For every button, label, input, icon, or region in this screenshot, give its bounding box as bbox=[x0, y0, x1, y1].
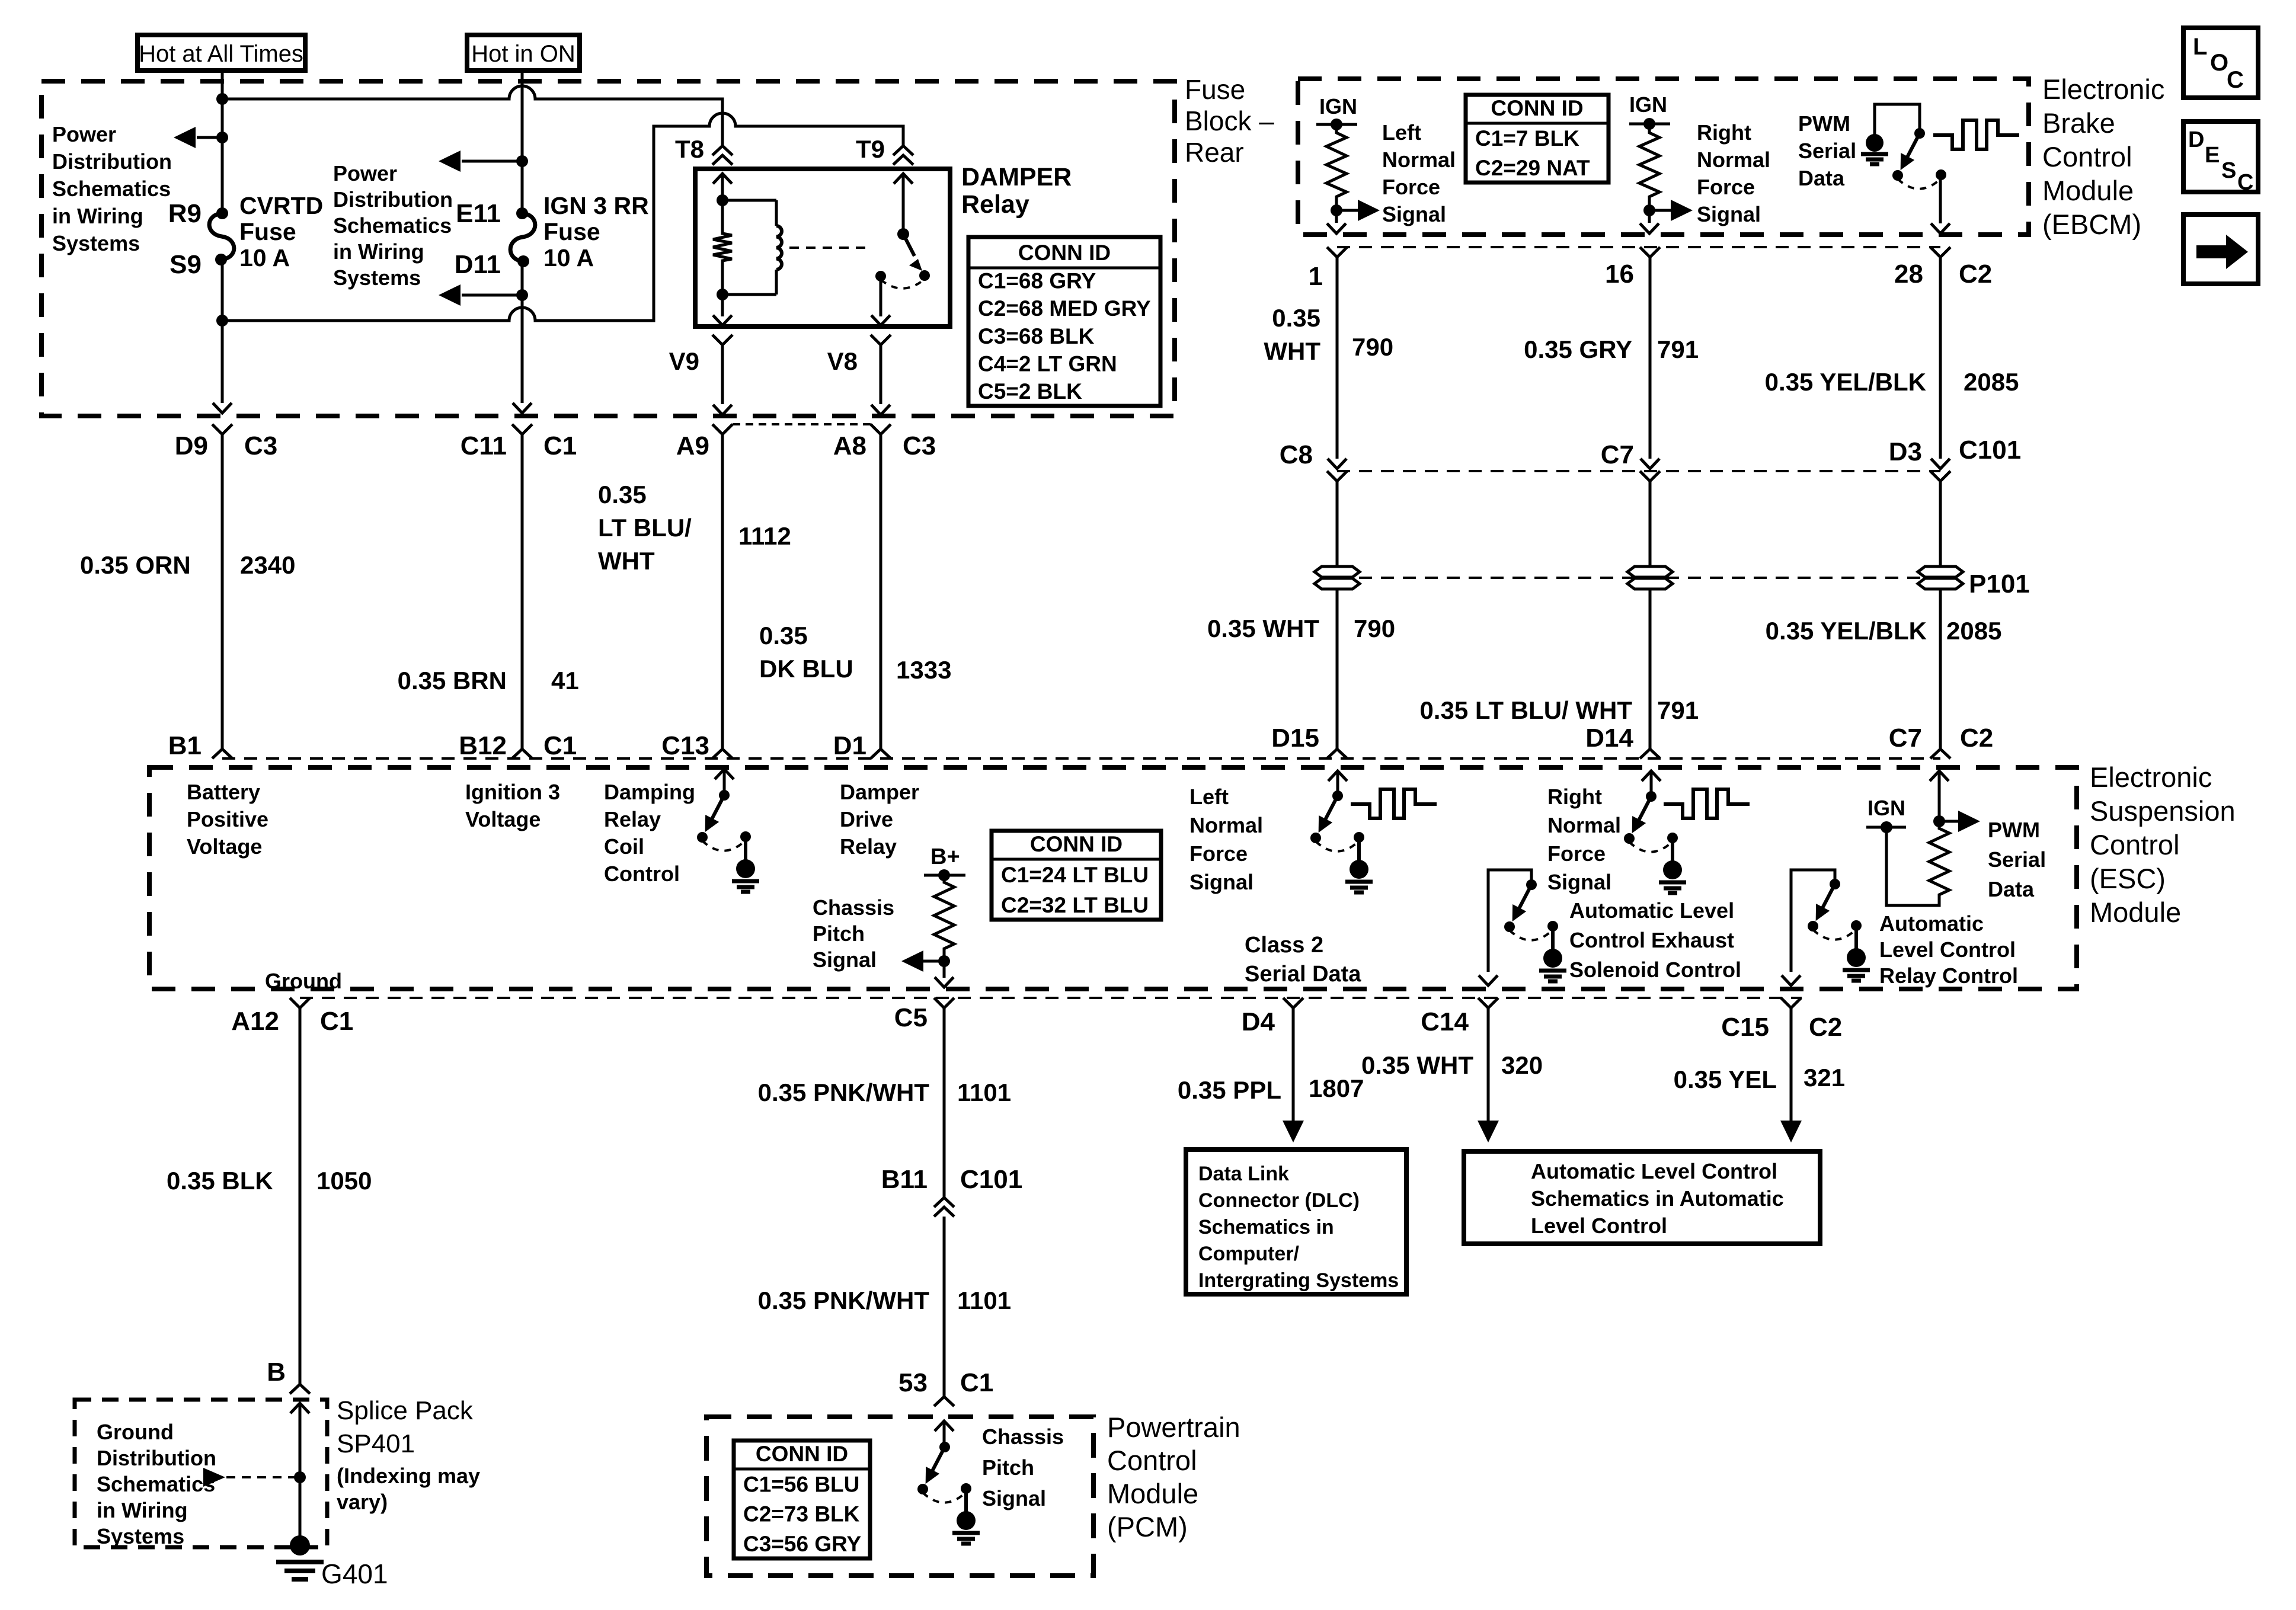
svg-text:C2=73 BLK: C2=73 BLK bbox=[743, 1502, 860, 1526]
svg-text:(ESC): (ESC) bbox=[2090, 863, 2166, 894]
svg-text:Powertrain: Powertrain bbox=[1107, 1411, 1240, 1443]
svg-text:D15: D15 bbox=[1271, 724, 1319, 753]
reference box: Data Link Connector (DLC) Schematics bbox=[1186, 1150, 1406, 1294]
svg-text:Hot at All Times: Hot at All Times bbox=[139, 41, 303, 67]
dashed arc: relay contact throw bbox=[881, 279, 925, 289]
svg-text:0.35 YEL/BLK: 0.35 YEL/BLK bbox=[1765, 368, 1926, 396]
svg-text:CONN ID: CONN ID bbox=[1491, 96, 1583, 120]
arrow: pin 28 exits EBCM bbox=[1931, 223, 1950, 233]
connector: B11/C101 in-line (double chevron) bbox=[934, 1198, 954, 1207]
svg-text:D1: D1 bbox=[833, 731, 866, 760]
junction: left normal force output node bbox=[1331, 204, 1342, 216]
switch: left normal force signal driver bbox=[1336, 771, 1339, 796]
arrow: C14 exits ESC (down) bbox=[1479, 975, 1498, 985]
svg-text:Left: Left bbox=[1382, 120, 1421, 145]
wire: A9 to C13 bbox=[721, 434, 724, 749]
svg-text:D14: D14 bbox=[1585, 724, 1633, 753]
svg-text:Signal: Signal bbox=[982, 1486, 1046, 1510]
svg-text:Drive: Drive bbox=[840, 807, 893, 831]
junction: fuse output / T9 feed branch bbox=[216, 315, 228, 327]
svg-text:Schematics: Schematics bbox=[97, 1472, 215, 1496]
svg-text:2340: 2340 bbox=[240, 551, 295, 579]
svg-text:WHT: WHT bbox=[598, 547, 655, 575]
wire: divider to output node bbox=[943, 952, 946, 978]
connector: D4 (female) bbox=[1283, 998, 1303, 1008]
junction: coil top node bbox=[717, 194, 728, 206]
svg-text:Suspension: Suspension bbox=[2090, 795, 2236, 827]
svg-text:C1=56 BLU: C1=56 BLU bbox=[743, 1472, 859, 1496]
module box: Electronic Brake Control Module (EBCM), dashed bbox=[1298, 79, 2029, 235]
svg-text:0.35 PNK/WHT: 0.35 PNK/WHT bbox=[758, 1286, 930, 1314]
junction: coil bottom node bbox=[717, 289, 728, 300]
svg-text:321: 321 bbox=[1803, 1064, 1845, 1092]
wire: PWM output contact to pin 28 bbox=[1939, 175, 1942, 223]
wire: class 2 serial data D4 to DLC (0.35 PPL 1807) bbox=[1292, 1008, 1295, 1121]
svg-text:vary): vary) bbox=[337, 1490, 388, 1514]
svg-text:C11: C11 bbox=[461, 431, 507, 460]
svg-text:Positive: Positive bbox=[187, 807, 268, 831]
svg-text:41: 41 bbox=[551, 667, 579, 694]
resistor: relay damping resistor bbox=[713, 230, 732, 264]
wire: V9 damping relay coil control to fuse block border bbox=[712, 335, 733, 345]
wire: branch at y167 to damper relay T8 (hops over IGN wire) bbox=[222, 86, 722, 146]
svg-text:Control: Control bbox=[2090, 829, 2180, 860]
svg-text:Schematics: Schematics bbox=[52, 177, 171, 201]
wire: below resistor to relay bottom bbox=[721, 264, 724, 316]
svg-text:Automatic: Automatic bbox=[1879, 911, 1984, 936]
svg-text:C1=24 LT BLU: C1=24 LT BLU bbox=[1001, 863, 1149, 887]
conn table: PCM CONN ID bbox=[734, 1441, 870, 1558]
svg-text:G401: G401 bbox=[321, 1558, 388, 1589]
svg-text:0.35: 0.35 bbox=[598, 481, 647, 508]
svg-text:Pitch: Pitch bbox=[813, 921, 865, 946]
arrow: left normal force signal (right) bbox=[1336, 209, 1358, 212]
module box: Fuse Block - Rear (dashed) bbox=[41, 81, 1175, 416]
svg-text:28: 28 bbox=[1894, 260, 1923, 289]
dashed link: coil actuates switch bbox=[789, 247, 871, 249]
svg-text:P101: P101 bbox=[1969, 569, 2030, 598]
svg-text:Control: Control bbox=[2042, 141, 2132, 172]
wire: A8 to D1 bbox=[880, 434, 882, 749]
svg-text:Level Control: Level Control bbox=[1879, 937, 2016, 962]
svg-text:CVRTD: CVRTD bbox=[239, 192, 323, 219]
connector: C5 (female) bbox=[934, 998, 954, 1008]
wire: ground to PWM switch pivot bbox=[1875, 104, 1920, 135]
wire: D9 to B1 (0.35 ORN 2340) bbox=[221, 434, 224, 749]
svg-text:SP401: SP401 bbox=[337, 1429, 415, 1458]
svg-text:D: D bbox=[2188, 127, 2204, 152]
svg-text:1112: 1112 bbox=[738, 522, 791, 550]
svg-text:D3: D3 bbox=[1889, 437, 1922, 466]
connector: ESC top entry (female) bbox=[712, 749, 733, 758]
svg-text:WHT: WHT bbox=[1264, 337, 1320, 365]
junction: battery feed / T8 branch bbox=[216, 93, 228, 105]
svg-text:Systems: Systems bbox=[52, 231, 140, 255]
junction: chassis pitch output node bbox=[938, 955, 950, 967]
plane: ESC bottom connector plane bbox=[300, 997, 1802, 999]
svg-text:2085: 2085 bbox=[1946, 617, 2001, 645]
icon box: forward arrow bbox=[2183, 215, 2258, 284]
svg-text:DK BLU: DK BLU bbox=[759, 655, 853, 683]
svg-text:320: 320 bbox=[1501, 1051, 1543, 1079]
arrow: chassis pitch signal (left) bbox=[923, 960, 944, 963]
svg-text:0.35 YEL/BLK: 0.35 YEL/BLK bbox=[1766, 617, 1927, 645]
plane: C101 in-line connector bbox=[1337, 470, 1940, 472]
wire: coil bottom connection bbox=[722, 293, 776, 296]
svg-text:Normal: Normal bbox=[1189, 813, 1263, 837]
svg-text:Automatic Level Control: Automatic Level Control bbox=[1531, 1159, 1777, 1183]
svg-text:Schematics: Schematics bbox=[333, 213, 452, 238]
conn table: ESC CONN ID bbox=[992, 831, 1161, 920]
junction: IGN fuse output / arrow branch D11 bbox=[516, 289, 528, 301]
wire: battery feed from Hot at All Times down to CVRTD fuse bbox=[221, 71, 224, 213]
wire: 791 C101 to P101 bbox=[1649, 481, 1652, 565]
svg-text:Force: Force bbox=[1547, 841, 1606, 866]
label box: Hot at All Times bbox=[137, 35, 305, 71]
arrow: PWM serial data (right) bbox=[1939, 820, 1959, 823]
svg-text:LT BLU/: LT BLU/ bbox=[598, 514, 692, 542]
arrow: relay output exits relay (down) bbox=[871, 315, 890, 325]
wire: 790 WHT C101 to P101 bbox=[1336, 481, 1339, 565]
fuse: IGN 3 RR Fuse 10 A bbox=[510, 213, 535, 261]
svg-text:V8: V8 bbox=[827, 347, 858, 375]
svg-text:C4=2 LT GRN: C4=2 LT GRN bbox=[978, 351, 1117, 376]
svg-text:16: 16 bbox=[1605, 260, 1634, 289]
plane: EBCM C2 connector plane bbox=[1337, 246, 1940, 248]
arrow: into ALC reference box (left) bbox=[1478, 1121, 1499, 1142]
module box: Powertrain Control Module (PCM), dashed bbox=[706, 1417, 1093, 1576]
svg-text:Right: Right bbox=[1697, 120, 1751, 145]
connector: EBCM pin 1 (female) bbox=[1327, 247, 1347, 257]
svg-text:Relay: Relay bbox=[840, 834, 897, 859]
svg-text:2085: 2085 bbox=[1964, 368, 2019, 396]
plane: fuse block lower connector plane (A9-A8) bbox=[733, 423, 871, 425]
wire: 2085 C101 to P101 bbox=[1939, 481, 1942, 565]
connector: D3 at C101 bbox=[1931, 459, 1950, 469]
arrow: ground distribution link (right) bbox=[203, 1468, 225, 1487]
connector: PCM pin 53 entry bbox=[934, 1397, 954, 1406]
svg-text:C3: C3 bbox=[244, 431, 277, 460]
svg-text:Electronic: Electronic bbox=[2090, 761, 2212, 793]
wire: 2085 YEL/BLK pin28 to C101 bbox=[1939, 257, 1942, 459]
svg-text:C7: C7 bbox=[1601, 440, 1634, 469]
connector: A9 (female) bbox=[712, 424, 733, 434]
wire: Hot in ON feed down to IGN 3 RR fuse bbox=[521, 71, 524, 213]
wire: PWM serial data to divider node bbox=[1938, 771, 1941, 825]
svg-text:Block –: Block – bbox=[1185, 105, 1274, 136]
svg-text:(PCM): (PCM) bbox=[1107, 1511, 1188, 1542]
relay K1: DAMPER Relay box bbox=[695, 169, 950, 327]
svg-text:790: 790 bbox=[1354, 614, 1395, 642]
svg-text:C1: C1 bbox=[960, 1368, 993, 1397]
arrow: into ALC reference box (right) bbox=[1780, 1121, 1802, 1142]
svg-text:C3=56 GRY: C3=56 GRY bbox=[743, 1532, 861, 1556]
svg-text:Chassis: Chassis bbox=[982, 1425, 1064, 1449]
svg-text:IGN: IGN bbox=[1629, 92, 1667, 117]
svg-text:in Wiring: in Wiring bbox=[52, 204, 143, 228]
connector: splice pack B entry bbox=[290, 1384, 310, 1394]
svg-text:Relay: Relay bbox=[604, 807, 661, 831]
svg-text:S: S bbox=[2221, 158, 2236, 183]
svg-text:B11: B11 bbox=[881, 1165, 928, 1194]
svg-text:C1: C1 bbox=[543, 431, 577, 460]
svg-text:E11: E11 bbox=[456, 199, 501, 228]
arrow: pin 53 enters PCM (up) bbox=[935, 1421, 954, 1431]
svg-text:C8: C8 bbox=[1280, 440, 1313, 469]
resistor: ESC PWM serial data bbox=[1929, 825, 1949, 898]
svg-text:C1: C1 bbox=[320, 1007, 353, 1036]
svg-text:Intergrating Systems: Intergrating Systems bbox=[1198, 1269, 1399, 1292]
svg-text:Ground: Ground bbox=[97, 1420, 174, 1444]
svg-text:S9: S9 bbox=[170, 250, 202, 279]
ground: EBCM PWM serial data reference bbox=[1866, 134, 1884, 152]
svg-text:Module: Module bbox=[1107, 1478, 1198, 1509]
arrow: to Power Distribution Schematics (mid, upper) bbox=[462, 160, 522, 163]
arrow: into DLC reference box bbox=[1283, 1121, 1304, 1142]
svg-text:C101: C101 bbox=[1959, 436, 2021, 465]
wire: IGN fuse output down to fuse-block border bbox=[521, 260, 524, 403]
svg-text:V9: V9 bbox=[669, 347, 699, 375]
wire: T9 feed from fuse output junction (hops over IGN wire and T8 wire) bbox=[222, 113, 903, 321]
svg-text:Normal: Normal bbox=[1547, 813, 1621, 837]
svg-text:Pitch: Pitch bbox=[982, 1455, 1034, 1480]
conn table: damper relay CONN ID bbox=[968, 237, 1160, 406]
connector: A12/C1 (female) bbox=[290, 998, 310, 1008]
connector: T8 into damper relay (double female) bbox=[712, 146, 733, 155]
svg-text:B1: B1 bbox=[168, 731, 202, 760]
svg-text:Brake: Brake bbox=[2042, 107, 2115, 139]
arrow: C5 exits ESC (down) bbox=[935, 977, 954, 987]
svg-text:0.35 PNK/WHT: 0.35 PNK/WHT bbox=[758, 1078, 930, 1106]
conn table: EBCM CONN ID bbox=[1466, 95, 1609, 183]
svg-text:CONN ID: CONN ID bbox=[1030, 832, 1123, 856]
svg-text:E: E bbox=[2205, 143, 2220, 168]
svg-text:Serial: Serial bbox=[1798, 139, 1856, 163]
arrow: relay common pin entering (up) bbox=[894, 174, 913, 184]
svg-text:791: 791 bbox=[1657, 335, 1699, 363]
svg-text:1101: 1101 bbox=[957, 1286, 1011, 1314]
svg-text:Ignition 3: Ignition 3 bbox=[465, 780, 560, 804]
svg-text:Schematics in Automatic: Schematics in Automatic bbox=[1531, 1186, 1784, 1211]
svg-text:C: C bbox=[2237, 170, 2253, 195]
junction: ESC IGN tick bbox=[1881, 821, 1892, 833]
wire: relay common to switch pivot bbox=[902, 174, 905, 234]
arrow: V8 exits fuse block bbox=[871, 405, 890, 415]
arrow: relay coil pin entering (up) bbox=[713, 174, 732, 184]
svg-text:C2: C2 bbox=[1959, 260, 1992, 289]
dashed link: to splice node bbox=[226, 1476, 300, 1478]
svg-text:T9: T9 bbox=[856, 135, 885, 163]
switch: relay contact arm bbox=[897, 228, 909, 240]
svg-text:Hot in ON: Hot in ON bbox=[471, 41, 575, 67]
svg-text:Rear: Rear bbox=[1185, 137, 1244, 168]
junction: battery feed / power-distribution arrow bbox=[216, 132, 228, 143]
reference box: Automatic Level Control Schematics bbox=[1464, 1151, 1820, 1244]
resistor: right normal force pull-up bbox=[1648, 124, 1651, 129]
grommet: P101 on wire 2085 bbox=[1918, 566, 1963, 577]
svg-text:Right: Right bbox=[1547, 785, 1602, 809]
wire: ALC relay control C15 down (0.35 YEL 321) bbox=[1790, 1008, 1793, 1121]
svg-text:CONN ID: CONN ID bbox=[1018, 241, 1111, 265]
svg-text:in Wiring: in Wiring bbox=[97, 1498, 188, 1522]
switch: PWM serial data driver (EBCM) bbox=[1914, 128, 1925, 139]
svg-text:L: L bbox=[2193, 34, 2207, 60]
svg-text:Force: Force bbox=[1189, 841, 1248, 866]
icon box: DESC bbox=[2183, 121, 2258, 192]
svg-text:0.35 WHT: 0.35 WHT bbox=[1207, 614, 1319, 642]
svg-text:Chassis: Chassis bbox=[813, 895, 894, 920]
svg-text:PWM: PWM bbox=[1798, 111, 1850, 136]
wire: 790 WHT pin1 to C101 bbox=[1336, 257, 1339, 459]
svg-text:C7: C7 bbox=[1889, 724, 1922, 753]
svg-text:Relay Control: Relay Control bbox=[1879, 964, 2018, 988]
svg-text:Fuse: Fuse bbox=[543, 218, 600, 245]
svg-text:Data: Data bbox=[1798, 166, 1845, 190]
wire: 790 WHT P101 to ESC D15 bbox=[1336, 590, 1339, 749]
junction: IGN tick right bbox=[1643, 118, 1655, 130]
grommet: P101 on wire 790 bbox=[1315, 566, 1360, 577]
svg-text:Voltage: Voltage bbox=[465, 807, 541, 831]
module box: Electronic Suspension Control (ESC) Module, dashed bbox=[149, 767, 2077, 989]
svg-text:1050: 1050 bbox=[316, 1167, 372, 1195]
svg-text:Coil: Coil bbox=[604, 834, 644, 859]
waveform: left normal force PWM bbox=[1351, 789, 1437, 818]
svg-text:Power: Power bbox=[52, 122, 116, 146]
wire: 2085 P101 to ESC C7 bbox=[1939, 590, 1942, 749]
svg-text:Fuse: Fuse bbox=[1185, 74, 1245, 105]
arrow: pin 1 exits EBCM bbox=[1327, 223, 1346, 233]
svg-text:Distribution: Distribution bbox=[52, 149, 172, 174]
svg-text:1: 1 bbox=[1309, 262, 1323, 291]
svg-text:Signal: Signal bbox=[1547, 870, 1611, 894]
svg-text:C: C bbox=[2227, 67, 2244, 93]
switch: automatic level control exhaust solenoid driver bbox=[1488, 870, 1531, 972]
svg-text:Schematics in: Schematics in bbox=[1198, 1216, 1334, 1238]
svg-text:C1: C1 bbox=[543, 731, 577, 760]
fuse: CVRTD Fuse 10 A bbox=[209, 213, 234, 260]
connector: C8 at C101 (male arrow + female) bbox=[1328, 459, 1347, 469]
switch: right normal force signal driver bbox=[1650, 771, 1653, 796]
svg-text:(EBCM): (EBCM) bbox=[2042, 209, 2141, 240]
junction: IGN tick bbox=[1331, 119, 1342, 130]
svg-text:Serial: Serial bbox=[1988, 847, 2046, 872]
arrow: splice pack entry (up) bbox=[290, 1403, 309, 1413]
svg-text:Systems: Systems bbox=[333, 265, 421, 290]
arrow: IGN output exits fuse block (down) bbox=[513, 403, 532, 413]
svg-text:C13: C13 bbox=[661, 731, 709, 760]
plane: P101 grommet pass-through bbox=[1337, 577, 1940, 579]
wire: resistor to output node bbox=[1335, 200, 1338, 223]
wire: relay coil left branch bbox=[721, 174, 724, 230]
arrow: C7/C2 PWM serial data enters ESC (up) bbox=[1930, 771, 1949, 781]
svg-text:in Wiring: in Wiring bbox=[333, 239, 424, 264]
svg-text:Solenoid Control: Solenoid Control bbox=[1569, 958, 1741, 982]
svg-text:Module: Module bbox=[2090, 897, 2181, 928]
svg-text:53: 53 bbox=[898, 1368, 928, 1397]
switch: chassis pitch signal input (PCM) bbox=[943, 1421, 946, 1447]
wire: resistor return loop to IGN bbox=[1886, 827, 1939, 905]
svg-text:Ground: Ground bbox=[265, 969, 342, 993]
arrow: D15 enters ESC (up) bbox=[1328, 771, 1347, 781]
svg-text:D9: D9 bbox=[175, 431, 208, 460]
svg-text:Electronic: Electronic bbox=[2042, 73, 2164, 105]
svg-text:0.35: 0.35 bbox=[759, 622, 808, 649]
connector: C7 at C101 bbox=[1641, 459, 1659, 469]
tick: B+ supply bbox=[924, 874, 965, 877]
svg-text:0.35 BLK: 0.35 BLK bbox=[167, 1167, 273, 1195]
svg-text:D4: D4 bbox=[1242, 1007, 1275, 1036]
svg-text:Signal: Signal bbox=[1697, 202, 1761, 226]
svg-text:PWM: PWM bbox=[1988, 818, 2040, 842]
svg-text:791: 791 bbox=[1657, 696, 1699, 724]
junction: ESC PWM serial data node bbox=[1933, 815, 1945, 827]
connector: ESC top entry (female) bbox=[1930, 749, 1950, 758]
svg-text:0.35 GRY: 0.35 GRY bbox=[1524, 335, 1632, 363]
wire: resistor to output node bbox=[1648, 200, 1651, 223]
svg-text:Control: Control bbox=[604, 862, 680, 886]
wire: relay output down to relay bottom bbox=[880, 276, 882, 316]
svg-text:Relay: Relay bbox=[961, 190, 1029, 219]
junction: right normal force output node bbox=[1643, 204, 1655, 216]
svg-text:D11: D11 bbox=[455, 250, 501, 279]
svg-text:A8: A8 bbox=[833, 431, 866, 460]
junction: B+ tick bbox=[938, 869, 950, 881]
svg-text:1333: 1333 bbox=[896, 656, 951, 684]
svg-text:Systems: Systems bbox=[97, 1524, 184, 1548]
wire: V8 damper drive to fuse block border bbox=[871, 335, 891, 345]
icon box: LOC bbox=[2183, 28, 2258, 98]
wire: C11 to B12 (0.35 BRN 41) bbox=[521, 434, 524, 749]
wire: 791 P101 to ESC D14 bbox=[1649, 590, 1652, 749]
wire: 791 GRY pin16 to C101 bbox=[1649, 257, 1652, 459]
connector: ESC top entry (female) bbox=[1327, 749, 1347, 758]
connector: ESC top entry (female) bbox=[871, 749, 891, 758]
wire: ground lead A12 to splice pack (0.35 BLK 1050) bbox=[299, 1008, 302, 1384]
svg-text:CONN ID: CONN ID bbox=[756, 1442, 848, 1466]
svg-text:0.35 BRN: 0.35 BRN bbox=[398, 667, 507, 694]
svg-text:Fuse: Fuse bbox=[239, 218, 296, 245]
svg-text:Power: Power bbox=[333, 161, 397, 185]
svg-text:Battery: Battery bbox=[187, 780, 260, 804]
svg-text:C5=2 BLK: C5=2 BLK bbox=[978, 379, 1082, 404]
arrow: to Power Distribution Schematics (left) bbox=[197, 136, 222, 139]
svg-text:O: O bbox=[2210, 50, 2228, 76]
resistor: left normal force pull-up bbox=[1335, 124, 1338, 129]
svg-text:Control: Control bbox=[1107, 1445, 1197, 1476]
svg-text:B12: B12 bbox=[459, 731, 507, 760]
svg-text:C3: C3 bbox=[903, 431, 936, 460]
svg-text:Distribution: Distribution bbox=[97, 1446, 216, 1470]
arrow: C13 enters ESC (up) bbox=[715, 769, 734, 779]
svg-text:C2: C2 bbox=[1960, 724, 1993, 753]
connector: D9/C3 below fuse block bbox=[212, 424, 232, 434]
svg-text:Damper: Damper bbox=[840, 780, 919, 804]
connector: C14 (female) bbox=[1478, 998, 1498, 1008]
tick: IGN supply (right) bbox=[1629, 123, 1670, 126]
svg-text:C14: C14 bbox=[1421, 1007, 1469, 1036]
svg-text:Damping: Damping bbox=[604, 780, 695, 804]
arrow: right normal force signal (right) bbox=[1649, 209, 1671, 212]
svg-text:Data: Data bbox=[1988, 877, 2035, 901]
svg-text:IGN: IGN bbox=[1868, 796, 1905, 820]
svg-text:Class 2: Class 2 bbox=[1245, 933, 1323, 958]
arrow: C15 exits ESC (down) bbox=[1782, 975, 1801, 985]
svg-text:A9: A9 bbox=[676, 431, 709, 460]
wire: coil top connection bbox=[722, 199, 776, 202]
contact: relay NO contact (moving end) bbox=[919, 270, 930, 281]
label box: Hot in ON bbox=[467, 35, 580, 71]
arrow: D14 enters ESC (up) bbox=[1642, 771, 1661, 781]
